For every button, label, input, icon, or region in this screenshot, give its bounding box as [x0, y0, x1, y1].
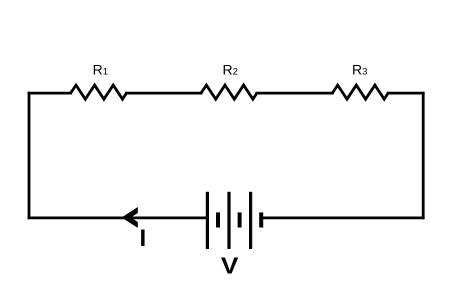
svg-text:R1: R1 [93, 61, 108, 77]
wire left [28, 93, 31, 218]
wire top-middle-1 [126, 92, 201, 95]
resistor R2 [201, 85, 257, 99]
battery cell 3 long plate [249, 192, 252, 249]
battery cell 2 long plate [227, 192, 230, 249]
wire right [422, 93, 425, 218]
current arrow I [122, 207, 138, 228]
wire top-middle-2 [257, 92, 333, 95]
resistor R1 [71, 85, 127, 99]
battery cell 1 short plate [216, 212, 220, 227]
svg-text:V: V [221, 253, 239, 279]
svg-text:R3: R3 [352, 61, 367, 77]
svg-text:R2: R2 [223, 61, 238, 77]
battery cell 2 short plate [238, 212, 242, 227]
resistor R3 [332, 85, 388, 99]
battery cell 1 long plate [206, 192, 209, 249]
wire top-right [388, 92, 423, 95]
battery cell 3 short plate [259, 212, 263, 227]
wire bottom-right [263, 216, 423, 219]
battery V [207, 192, 261, 249]
wire bottom-left [29, 216, 207, 219]
wire top-left [29, 92, 71, 95]
svg-text:I: I [140, 225, 147, 252]
